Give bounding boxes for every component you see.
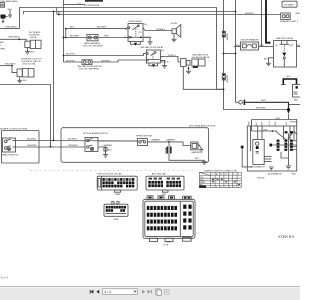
svg-text:SOLENOID VALVE: SOLENOID VALVE [192,56,210,59]
toolbar page input [103,289,138,295]
key switch ground [288,133,290,166]
wire vertical x63 meter bus [63,0,65,62]
contact stub wires [272,144,297,146]
svg-text:BLK: BLK [0,42,5,44]
wire 86 ground [143,37,150,42]
svg-text:BLK: BLK [195,158,199,160]
J5 bottom tab [183,238,192,242]
svg-text:PRESS SWITCH: PRESS SWITCH [136,135,152,137]
wire RED/BLU flasher feed [57,14,281,16]
svg-text:4 / 4: 4 / 4 [104,290,111,294]
junction dots bus [235,11,237,13]
svg-text:(27): (27) [138,32,142,34]
svg-text:BLK: BLK [292,174,297,176]
svg-text:L: L [229,174,230,176]
connector J4 [143,199,195,238]
resistor branch [168,142,170,147]
connector J5 pin field [183,205,191,230]
wire y39.3 [0,39,26,41]
svg-text:RESIST: RESIST [164,148,166,155]
relay block dark [1,15,6,19]
svg-text:12V LAMP: 12V LAMP [284,3,295,6]
dashed page line [30,169,197,171]
battery negative wire [289,104,301,106]
toolbar next button [142,290,152,294]
svg-text:RED/BLU: RED/BLU [245,13,255,15]
svg-text:BEEPER: BEEPER [192,152,201,154]
svg-text:BLK/WHT: BLK/WHT [97,27,107,29]
breaker box [241,42,259,50]
connector J1 [97,176,137,190]
horn speaker [172,29,176,34]
svg-text:REACH SWITCH: REACH SWITCH [2,154,19,157]
svg-text:VITE GO (UTIL/PLUG CAP: VITE GO (UTIL/PLUG CAP [97,172,123,175]
one way flow switch [82,60,92,65]
solenoid valve connector [181,59,186,67]
svg-text:6: 6 [234,186,235,188]
svg-text:HOUR METER: HOUR METER [85,5,100,7]
hour meter box [85,0,103,2]
svg-text:BLU/RED: BLU/RED [68,139,78,141]
resistor ground [202,161,207,163]
small stub below [2,19,4,22]
svg-text:FLASHER LIGHT 1: FLASHER LIGHT 1 [280,20,299,23]
svg-text:HORN RELAY: HORN RELAY [129,20,143,23]
press switch box [138,139,148,146]
engagement switch [3,138,16,152]
svg-text:(87): (87) [290,45,294,47]
battery relay ground [269,58,274,64]
key switch contacts [270,131,294,151]
svg-text:ORN: ORN [249,121,251,126]
svg-text:4: 4 [225,186,226,188]
valve ground [188,67,190,72]
switch out wires [98,140,138,142]
svg-text:BLK: BLK [287,76,292,78]
ground G3 [19,77,21,81]
svg-text:RED/WHT: RED/WHT [256,107,266,109]
svg-text:BLK: BLK [264,58,268,60]
svg-text:30A RED: 30A RED [226,75,229,83]
J1 tab [115,190,121,192]
relay K2 box [146,50,160,63]
svg-text:JCYB: JCYB [163,245,169,247]
horn ground [173,34,175,40]
relay K2 coil loop [149,63,158,66]
wire y28.6 [0,28,19,30]
connector block TL [0,3,5,8]
option box D [61,128,209,163]
wire vertical x236 battery feed [235,0,237,102]
J2 tab [162,190,168,192]
relay K1 box [128,24,143,42]
svg-text:x1 x2: x1 x2 [269,121,271,125]
svg-text:GROUP BREAKER: GROUP BREAKER [241,38,260,41]
toolbar page-view icon [156,289,162,296]
svg-text:2: 2 [216,186,217,188]
svg-text:WHT/BLK: WHT/BLK [290,122,299,124]
internal verticals [250,126,252,151]
svg-text:JTMB: JTMB [115,194,121,196]
wire bus2 [24,12,236,15]
svg-text:(86 BLK): (86 BLK) [161,61,169,63]
svg-text:10A BLK: 10A BLK [225,33,228,41]
svg-text:GRN: GRN [0,48,5,50]
wire meter [64,4,86,6]
toolbar first-page button [90,290,99,294]
wire vertical x223.7 fused feed [224,0,290,110]
svg-text:ALTERNATOR: ALTERNATOR [251,166,265,169]
svg-text:L/AMBER: L/AMBER [166,138,176,141]
battery relay box [274,41,297,68]
svg-text:R1: R1 [220,174,222,176]
relay K1 coil loop [131,42,141,45]
wire vertical x261 [261,0,263,46]
svg-text:R2: R2 [225,174,227,176]
svg-text:HORN: HORN [171,23,178,25]
svg-text:C/N: C/N [167,241,171,243]
svg-text:ONE WAY FLOW RELAY: ONE WAY FLOW RELAY [140,46,164,49]
svg-text:ORN/RED: ORN/RED [68,145,78,147]
beeper ground [199,149,203,151]
table dots [212,179,240,185]
K2 ground [160,60,164,65]
svg-text:4 of 4: 4 of 4 [1,276,9,280]
svg-text:STARTED SWITCH CONNECTION: STARTED SWITCH CONNECTION [204,169,237,172]
table grid [199,172,241,187]
svg-text:ORN: ORN [104,35,109,37]
outer box key switch [247,126,296,171]
svg-text:AVIT GHZ CAP: AVIT GHZ CAP [152,172,167,175]
connector J2 [146,176,184,190]
battery box [293,85,302,98]
fuse F2 [222,74,225,81]
ground G1 [9,10,11,16]
wire stub y53.5 [224,53,236,55]
svg-text:1: 1 [212,186,213,188]
svg-text:V.13Q / B.A: V.13Q / B.A [278,234,295,238]
J5 top tab [183,196,192,199]
solenoid THC [25,41,30,47]
svg-text:(ON 4 IN. VENTERS): (ON 4 IN. VENTERS) [83,45,103,47]
svg-text:(ON 4 IN. VENTERS): (ON 4 IN. VENTERS) [79,68,99,70]
toolbar disabled icon [164,289,169,294]
svg-text:JTMB: JTMB [113,219,119,221]
bottom dark row [199,186,206,188]
svg-text:L/AMBER: L/AMBER [151,138,161,141]
svg-text:S/N 186: S/N 186 [257,178,265,180]
header labels [200,173,240,186]
svg-text:RED: RED [296,13,300,15]
ground G2 [27,48,29,52]
option box A [2,131,40,164]
solenoid lockout [17,69,22,77]
svg-text:MOTION ALARM (OPTION): MOTION ALARM (OPTION) [190,125,216,128]
toolbar last-page button [148,290,151,294]
thick battery cable [266,0,271,43]
svg-text:BLK: BLK [23,80,28,82]
wire return to bus [183,67,223,90]
svg-text:5: 5 [229,186,230,188]
B+ terminal square [241,146,244,149]
connector J3 [104,204,128,216]
wire bus1 [20,8,224,90]
svg-text:MOTION ALARM SWITCH: MOTION ALARM SWITCH [83,132,108,135]
beeper box [191,142,198,150]
junction dot [18,38,20,40]
toolbar prev button [96,290,99,294]
svg-text:(P&D 1/4 OR): (P&D 1/4 OR) [22,63,35,65]
svg-text:BLK: BLK [108,149,112,151]
alternator pins [264,156,271,158]
alternator box [253,140,264,165]
wire bend left feed [0,85,51,147]
svg-text:3: 3 [221,186,222,188]
svg-text:ALTERNATOR: ALTERNATOR [268,173,282,176]
toolbar [0,286,300,300]
fuse F1 [222,31,225,37]
svg-text:ORN/BLK: ORN/BLK [156,29,166,31]
wire vertical x53.8 main left bus [53,12,55,141]
J4 bottom tabs [150,238,158,241]
key switch diagonals [276,131,286,139]
wire relay to horn [143,28,172,31]
inline fuse holder [239,101,243,105]
svg-text:7: 7 [238,186,239,188]
flasher light [281,13,291,20]
diode to ground [104,148,107,151]
svg-text:T/BLU/RED: T/BLU/RED [8,37,20,39]
svg-text:BLK: BLK [31,51,36,53]
ground marks left [269,166,274,168]
svg-text:BATTERY RELAY: BATTERY RELAY [277,37,294,40]
J4 top tabs [147,196,153,200]
12V lamp box [282,1,297,7]
wire y65.6 [0,65,12,67]
svg-text:136 VA: 136 VA [30,36,37,39]
wire harness switch [87,34,98,40]
